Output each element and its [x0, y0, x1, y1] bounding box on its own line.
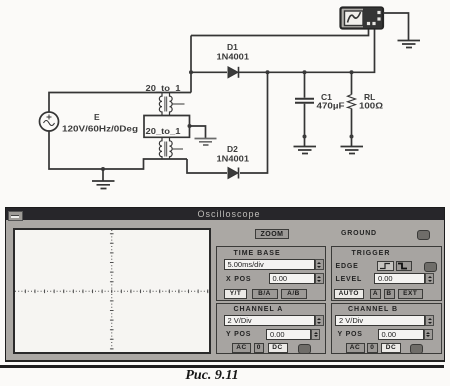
svg-text:D1: D1 — [227, 42, 238, 52]
ZOOM button — [255, 229, 289, 240]
transformer T1 — [159, 93, 184, 116]
TRIGGER section — [331, 246, 442, 302]
CHANNEL B section — [331, 303, 442, 354]
svg-text:120V/60Hz/0Deg: 120V/60Hz/0Deg — [62, 124, 138, 134]
svg-text:E: E — [94, 112, 100, 122]
label RL value — [359, 92, 383, 111]
node: RL junction — [350, 70, 354, 74]
wire: center-tap loop between T1 and T2 — [144, 116, 190, 138]
resistor RL — [348, 72, 356, 146]
svg-text:20_to_1: 20_to_1 — [146, 83, 181, 93]
caption — [0, 368, 424, 384]
transformer T2 — [159, 137, 183, 159]
ground below RL — [341, 147, 364, 154]
GROUND label — [341, 230, 377, 237]
wire: D1 anode — [191, 71, 227, 73]
svg-text:20_to_1: 20_to_1 — [146, 126, 181, 136]
label D2 — [217, 144, 250, 164]
transformer T2 label — [146, 126, 181, 136]
wire: output rail to scope channel B — [239, 29, 375, 72]
ground at center tap — [195, 139, 217, 146]
svg-text:1N4001: 1N4001 — [217, 52, 250, 62]
svg-text:D2: D2 — [227, 144, 238, 154]
wire: scope ground lead — [383, 13, 409, 40]
label C1 value — [317, 92, 345, 111]
CHANNEL A section — [216, 303, 326, 354]
label D1 — [217, 42, 250, 62]
diode D2 — [228, 168, 239, 179]
TIME BASE section — [216, 246, 326, 302]
oscilloscope panel window — [5, 207, 445, 362]
ground below C1 — [294, 147, 317, 154]
node: center-tap junction — [188, 124, 192, 128]
wire: scope channel A lead — [191, 29, 369, 36]
wire: D2 cathode branch — [240, 72, 268, 173]
wire: source top to transformer T1 top rail — [49, 93, 191, 113]
AC source E — [40, 112, 59, 131]
svg-text:1N4001: 1N4001 — [217, 154, 250, 164]
ground terminal button — [417, 230, 430, 240]
ground at source bottom rail — [92, 181, 115, 189]
wire: source bottom rail — [49, 131, 187, 169]
node: C1 junction — [303, 70, 307, 74]
circuit schematic drawing — [0, 0, 450, 206]
svg-text:470µF: 470µF — [317, 101, 345, 111]
node: bottom-rail ground junction — [101, 167, 105, 181]
wire: T1 top to D1/scope node — [190, 36, 192, 93]
capacitor C1 — [295, 72, 314, 146]
transformer T1 label — [146, 83, 181, 93]
node: RL ground junction — [350, 135, 354, 139]
node: D1 anode junction — [189, 70, 193, 74]
svg-text:100Ω: 100Ω — [359, 101, 383, 111]
ground at scope — [398, 41, 421, 48]
node: C1 ground junction — [303, 135, 307, 139]
figure bottom rule — [0, 365, 444, 368]
scope display screen — [13, 228, 212, 354]
node: D2 branch junction — [266, 70, 270, 74]
wire: D2 anode to T2 secondary bottom — [187, 159, 227, 173]
label E value — [62, 112, 138, 134]
diode D1 — [228, 67, 239, 78]
wire: center-tap to ground — [190, 126, 206, 138]
